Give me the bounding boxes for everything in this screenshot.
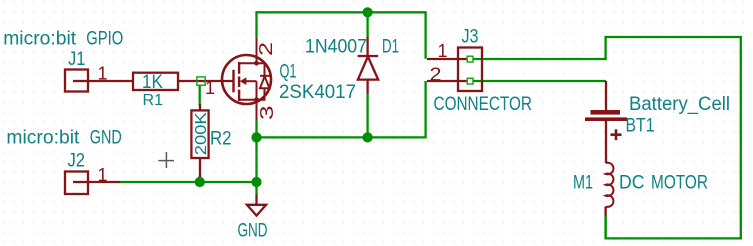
battery BT1 pins <box>605 81 607 110</box>
svg-text:1N4007: 1N4007 <box>305 36 367 58</box>
svg-text:2SK4017: 2SK4017 <box>279 81 356 103</box>
svg-text:2: 2 <box>256 42 276 56</box>
resistor R1 <box>133 73 178 90</box>
svg-text:M1: M1 <box>573 172 593 194</box>
junction D1 bottom <box>363 132 373 142</box>
svg-text:R1: R1 <box>143 92 164 109</box>
svg-text:micro:bit: micro:bit <box>3 28 77 50</box>
resistor R2 <box>191 110 208 158</box>
svg-text:GND: GND <box>238 219 268 241</box>
wire R2 bottom <box>199 176 201 182</box>
transistor Q1 <box>222 38 271 120</box>
battery BT1 plates <box>591 110 621 115</box>
svg-text:1: 1 <box>98 165 108 185</box>
svg-text:200K: 200K <box>193 112 210 155</box>
svg-text:J2: J2 <box>68 150 86 172</box>
dangling wire-end square J3 pin2 <box>467 78 473 84</box>
wire motor bottom <box>604 216 606 238</box>
svg-text:DC: DC <box>619 172 645 194</box>
dangling wire-end square J3 pin1 <box>467 56 473 62</box>
wire D1 top <box>366 12 368 37</box>
svg-text:micro:bit: micro:bit <box>6 126 80 148</box>
wire J3 pin1 to battery loop <box>473 37 741 238</box>
svg-text:MOTOR: MOTOR <box>651 172 708 194</box>
junction D1 top <box>363 7 373 17</box>
svg-text:J1: J1 <box>68 48 86 70</box>
svg-text:1: 1 <box>98 63 108 83</box>
wire J3 pin2 to battery top <box>473 80 606 82</box>
svg-text:D1: D1 <box>382 36 399 58</box>
sheet anchor cross <box>158 152 174 168</box>
svg-text:R2: R2 <box>210 128 232 150</box>
svg-text:1K: 1K <box>142 71 163 93</box>
svg-text:2: 2 <box>430 65 442 85</box>
junction Q1 source / mid rail <box>251 132 261 142</box>
connector J1 <box>65 70 88 92</box>
dangling wire-end square gate node <box>197 77 205 85</box>
svg-text:GND: GND <box>90 126 122 148</box>
svg-text:Battery_Cell: Battery_Cell <box>629 93 730 115</box>
wire drain top rail <box>257 12 426 59</box>
svg-text:GPIO: GPIO <box>86 28 123 50</box>
wire bottom rail from J2 <box>120 181 257 183</box>
connector J3 <box>458 48 482 92</box>
svg-text:BT1: BT1 <box>626 114 655 136</box>
motor M1 pin bottom <box>604 207 606 217</box>
wire R2 top <box>199 85 201 106</box>
svg-text:Q1: Q1 <box>280 61 297 83</box>
svg-text:3: 3 <box>257 106 277 121</box>
gnd symbol <box>255 195 257 205</box>
diode D1 <box>366 37 368 56</box>
svg-text:1: 1 <box>438 41 448 61</box>
wire D1 bottom <box>366 94 368 137</box>
junction R2 bottom rail <box>195 177 205 187</box>
junction GND node <box>251 177 261 187</box>
svg-text:J3: J3 <box>462 26 479 48</box>
svg-text:1: 1 <box>205 78 215 98</box>
connector J2 <box>65 172 88 195</box>
wire mid rail <box>255 120 257 182</box>
motor M1 inductor <box>606 163 614 207</box>
wire GND stub <box>255 182 257 195</box>
svg-text:CONNECTOR: CONNECTOR <box>434 93 533 115</box>
battery plus sign <box>611 129 622 140</box>
